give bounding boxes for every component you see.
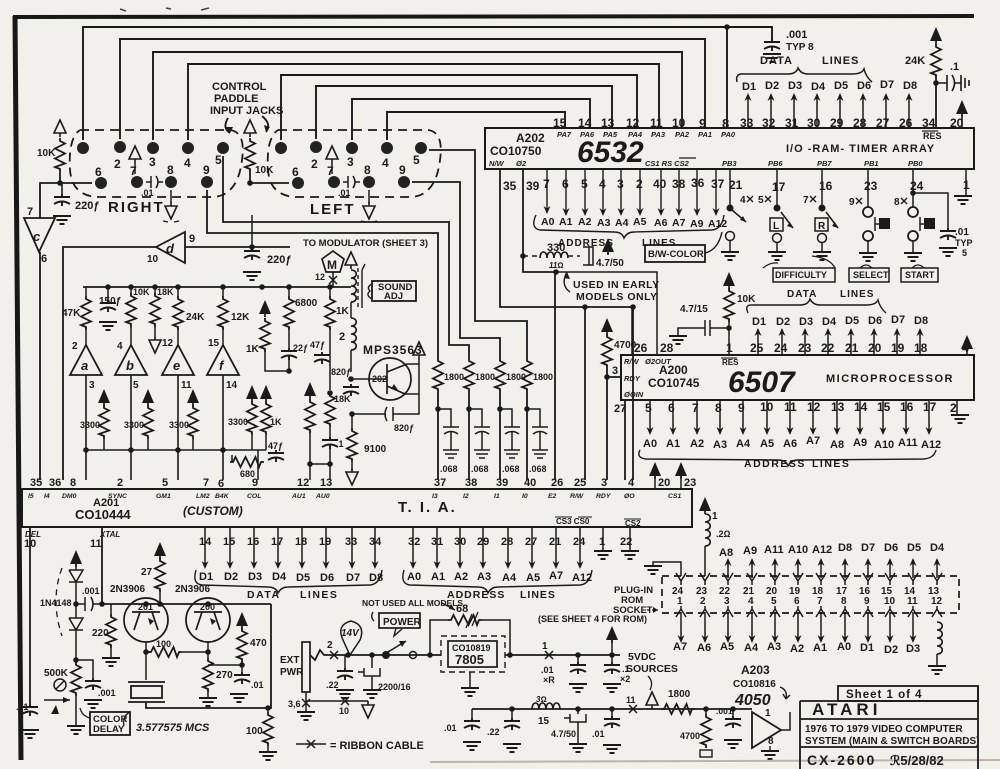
svg-text:1: 1 (599, 536, 605, 548)
svg-text:A3: A3 (477, 571, 491, 583)
svg-text:(CUSTOM): (CUSTOM) (183, 504, 243, 518)
svg-text:1: 1 (677, 596, 683, 607)
svg-text:D7: D7 (861, 542, 875, 554)
svg-text:8: 8 (715, 401, 722, 415)
DIFFICULTY box (773, 268, 835, 282)
data line arrows D1-D8 into 6532 (748, 95, 909, 128)
POWER box (379, 613, 420, 628)
svg-text:17: 17 (923, 400, 937, 414)
svg-text:A6: A6 (654, 217, 668, 229)
svg-text:A11: A11 (764, 544, 784, 556)
junction dot at 220uf node (249, 244, 255, 250)
ADDRESS LINES brace at 6507 (639, 450, 936, 466)
resistor 100 output (265, 705, 271, 711)
wire amp e output down to TIA (177, 375, 179, 480)
svg-text:D2: D2 (884, 644, 898, 656)
svg-text:L: L (773, 221, 779, 232)
svg-text:4: 4 (748, 596, 754, 607)
svg-text:12: 12 (315, 272, 325, 282)
svg-text:DATA: DATA (760, 55, 793, 67)
svg-text:R/W: R/W (570, 493, 584, 500)
svg-text:D7: D7 (346, 572, 360, 584)
capacitor .068 no2 (469, 409, 490, 458)
svg-text:3300: 3300 (80, 420, 100, 430)
wire RIGHT pin5 down and right to x449 column (223, 156, 469, 358)
svg-text:D3: D3 (788, 80, 802, 92)
svg-text:.01: .01 (338, 188, 351, 198)
svg-text:ℛ5/28/82: ℛ5/28/82 (890, 753, 944, 768)
junction dot PB0 wire (910, 190, 916, 196)
RIBBON CABLE legend (296, 743, 326, 745)
svg-text:.068: .068 (529, 464, 547, 474)
svg-text:TO MODULATOR (SHEET 3): TO MODULATOR (SHEET 3) (303, 238, 428, 249)
svg-text:TYP: TYP (955, 238, 973, 248)
resistor 68 bypass (427, 652, 433, 658)
svg-text:7: 7 (203, 477, 209, 489)
wire 24K to RES pin34 (935, 78, 937, 128)
svg-text:820ƒ: 820ƒ (394, 423, 414, 433)
svg-text:I/O -RAM- TIMER ARRAY: I/O -RAM- TIMER ARRAY (786, 143, 935, 155)
black arrow 6507 pin4 (961, 335, 973, 352)
wire PA2 net: RIGHT jack pin3 to 6532 pin10 (153, 52, 682, 140)
svg-text:21: 21 (729, 178, 743, 192)
address arrows from 6532 pins 7..37 to A0-A12 (547, 169, 716, 212)
svg-text:220ƒ: 220ƒ (75, 200, 99, 212)
junction 4700 (703, 706, 709, 712)
svg-text:18: 18 (914, 341, 928, 355)
ADDRESS LINES brace under TIA (403, 570, 592, 593)
svg-text:.1: .1 (336, 439, 344, 449)
svg-text:×R: ×R (543, 675, 555, 685)
capacitor .001 TYP 8 on PA0 (764, 39, 780, 51)
curved callout arrow early models (564, 272, 570, 292)
svg-text:.2Ω: .2Ω (716, 529, 731, 539)
svg-text:LM2: LM2 (196, 493, 210, 500)
TIA data arrows down D1-D8 (205, 527, 375, 566)
6507 data arrows D1-D8 (758, 330, 920, 355)
resistor 1K sound (329, 287, 331, 390)
svg-text:A2: A2 (578, 216, 592, 228)
open arrow above 10K (54, 120, 66, 137)
svg-text:SELECT: SELECT (853, 270, 889, 280)
svg-text:18K: 18K (157, 287, 174, 297)
buffer 4050 triangle (752, 712, 781, 748)
svg-text:D1: D1 (860, 642, 874, 654)
RIGHT jack pin 3 (147, 142, 159, 154)
svg-text:9: 9 (252, 477, 258, 489)
svg-text:ADDRESS: ADDRESS (744, 458, 806, 470)
wire Q200 emitter down (207, 642, 209, 658)
svg-text:470: 470 (250, 638, 267, 649)
resistor 18K (154, 287, 156, 336)
wire 6532 pin39 phi2 down (523, 169, 555, 480)
RIGHT jack pin 7 (131, 176, 143, 188)
wire 47K to amp a (85, 330, 87, 345)
svg-text:13: 13 (320, 477, 332, 489)
svg-text:18K: 18K (334, 394, 351, 404)
svg-text:16: 16 (819, 179, 833, 193)
resistor 3300 no4 with arrow (246, 385, 258, 402)
svg-text:PWR: PWR (280, 667, 304, 678)
svg-text:29: 29 (830, 116, 844, 130)
svg-text:CO10816: CO10816 (733, 679, 776, 690)
svg-text:2: 2 (114, 157, 121, 171)
svg-text:6: 6 (794, 596, 800, 607)
TIA pin1 ground (602, 527, 604, 551)
svg-text:10K: 10K (737, 294, 756, 305)
svg-text:9: 9 (189, 233, 195, 245)
svg-text:6: 6 (95, 165, 102, 179)
regulator 7805 (441, 636, 505, 672)
svg-text:11: 11 (90, 538, 102, 550)
svg-text:8: 8 (722, 116, 729, 131)
ROM upper bus labels (719, 542, 945, 559)
svg-text:4050: 4050 (734, 692, 771, 709)
svg-text:ØOIN: ØOIN (624, 390, 644, 399)
resistor 220 (110, 604, 112, 614)
svg-text:1K: 1K (270, 417, 282, 427)
junction dots below 1800s (435, 406, 441, 412)
capacitor .01 no2 on rail (609, 706, 615, 712)
svg-text:START: START (905, 270, 935, 280)
wire LEFT pin9 to x460 column (412, 182, 500, 358)
svg-text:27: 27 (876, 116, 890, 130)
transistor Q-MPS3563 (369, 358, 411, 400)
resistor 47K (85, 287, 87, 296)
svg-text:20: 20 (868, 341, 882, 355)
svg-text:PB1: PB1 (864, 159, 879, 168)
ROM bottom pin fork symbols (676, 606, 942, 617)
svg-text:2: 2 (327, 640, 333, 651)
capacitor .001 buffer (730, 706, 736, 712)
ROM bottom pin numbers (677, 596, 943, 607)
svg-text:5: 5 (413, 153, 420, 167)
svg-text:A203: A203 (741, 663, 770, 677)
svg-text:27: 27 (614, 403, 626, 415)
svg-text:10: 10 (339, 706, 349, 716)
svg-text:11: 11 (650, 116, 663, 130)
power switch (382, 651, 390, 659)
svg-text:PA0: PA0 (721, 130, 736, 139)
capacitor .01 at 470 (234, 672, 250, 684)
svg-text:14: 14 (226, 380, 238, 391)
svg-text:A2: A2 (690, 438, 704, 450)
wires 1800s down to TIA pins 37-40 (438, 392, 527, 480)
svg-text:CX-2600: CX-2600 (807, 752, 876, 768)
svg-text:2: 2 (72, 341, 78, 352)
capacitor .22 on rail (509, 706, 515, 712)
svg-text:11Ω: 11Ω (549, 261, 563, 270)
svg-text:11: 11 (626, 695, 636, 705)
wire PB0 to .01 typ5 cap (913, 193, 948, 228)
labels D1-D8 (742, 79, 917, 93)
svg-text:330: 330 (547, 242, 565, 254)
labels A0-A12 under 6532 (541, 216, 727, 230)
svg-text:6: 6 (668, 401, 675, 415)
6507 address arrows A0-A12 (650, 400, 929, 432)
resistor 10K center (paddle pot) (245, 138, 255, 172)
svg-text:47ƒ: 47ƒ (268, 441, 283, 451)
ground below 220 (110, 648, 112, 658)
sound adj dashed wiper (357, 268, 359, 310)
svg-text:2: 2 (311, 157, 318, 171)
sound coil upper (351, 270, 356, 302)
junction dots at transistor bases (143, 601, 149, 607)
svg-text:4: 4 (382, 156, 389, 170)
svg-text:3300: 3300 (169, 420, 189, 430)
op-amp f (207, 345, 239, 375)
svg-text:.1: .1 (950, 61, 959, 73)
op-amp e (162, 345, 194, 375)
capacitor .001 at pot (76, 660, 93, 678)
svg-text:220: 220 (92, 628, 109, 639)
ROM top pin numbers (672, 586, 940, 597)
LEFT jack pin numbers (292, 153, 420, 179)
capacitor 4.7/50 early models (583, 247, 593, 265)
resistor 1800 power (661, 704, 695, 714)
IC U-A200 6507 box (621, 355, 974, 400)
svg-text:D8: D8 (903, 80, 917, 92)
svg-text:D3: D3 (248, 571, 262, 583)
svg-text:A5: A5 (720, 641, 734, 653)
svg-text:.001: .001 (786, 29, 807, 41)
resistor 24K (931, 44, 941, 78)
svg-text:23: 23 (864, 179, 878, 193)
svg-text:5: 5 (771, 596, 777, 607)
svg-text:15: 15 (538, 716, 550, 727)
5V distribution rail lower (472, 708, 752, 710)
open arrow sound column (345, 252, 357, 269)
svg-text:A1: A1 (559, 216, 573, 228)
RIGHT jack pin 1 (77, 142, 89, 154)
svg-text:A9: A9 (853, 437, 867, 449)
svg-text:4: 4 (628, 477, 635, 489)
open arrow at collector (413, 342, 425, 359)
svg-text:d: d (166, 241, 175, 256)
svg-text:7: 7 (692, 401, 699, 415)
svg-text:LINES: LINES (520, 589, 556, 601)
RIGHT jack pin 8 (165, 176, 177, 188)
svg-text:A2: A2 (790, 643, 804, 655)
label CONTROL PADDLE INPUT JACKS (210, 81, 283, 117)
svg-text:RDY: RDY (624, 374, 641, 383)
svg-text:GM1: GM1 (156, 493, 171, 500)
svg-text:3300: 3300 (228, 417, 248, 427)
svg-text:D5: D5 (845, 315, 859, 327)
svg-text:27: 27 (141, 567, 153, 578)
LEFT jack pin 8 (363, 176, 375, 188)
svg-text:24K: 24K (905, 55, 925, 67)
RIGHT jack pin 2 (114, 141, 126, 153)
black arrow 5V (606, 626, 618, 643)
svg-text:35: 35 (30, 477, 42, 489)
svg-text:DELAY: DELAY (93, 724, 125, 735)
switch PB0 start (912, 169, 914, 207)
svg-text:9: 9 (699, 116, 706, 131)
LEFT jack pin 2 (310, 141, 322, 153)
LEFT jack pin 6 (292, 177, 304, 189)
svg-text:100: 100 (246, 726, 263, 737)
svg-text:1: 1 (765, 708, 771, 719)
6532 PA pin name labels (557, 130, 736, 139)
wire center 10K down to LEFT pin6 rail (250, 172, 289, 183)
svg-text:2N3906: 2N3906 (110, 584, 145, 595)
svg-text:A8: A8 (719, 547, 733, 559)
svg-text:3.577575 MCS: 3.577575 MCS (136, 722, 210, 734)
dashed arc around diodes (56, 568, 62, 636)
svg-text:9: 9 (399, 163, 406, 177)
svg-text:CS2: CS2 (625, 519, 641, 528)
resistor 270 (203, 658, 213, 692)
svg-text:ATARI: ATARI (812, 700, 881, 719)
svg-text:5: 5 (645, 401, 652, 415)
svg-text:1K: 1K (246, 344, 260, 355)
svg-text:.22: .22 (326, 680, 339, 690)
svg-text:28: 28 (660, 341, 674, 355)
capacitor .22 input (344, 655, 346, 668)
svg-text:2: 2 (700, 596, 706, 607)
svg-text:I4: I4 (44, 493, 50, 500)
svg-text:A7: A7 (672, 217, 686, 229)
svg-text:A4: A4 (736, 438, 751, 450)
svg-text:15: 15 (208, 338, 220, 349)
ADDRESS LINES brace (6532) (534, 215, 724, 238)
svg-text:.001: .001 (82, 586, 100, 596)
LEFT jack pin 3 (346, 142, 358, 154)
svg-text:×2: ×2 (620, 674, 630, 684)
svg-text:D6: D6 (884, 542, 898, 554)
svg-text:3: 3 (724, 596, 730, 607)
junction dot 18K top (327, 390, 333, 396)
resistor 12K (222, 287, 224, 345)
svg-text:8: 8 (167, 163, 174, 177)
svg-text:33: 33 (740, 116, 754, 130)
resistor 24K (177, 287, 179, 345)
SELECT box (849, 268, 889, 282)
modulator M pentagon (322, 251, 344, 272)
wire 18K bottom to TIA pin13 (329, 449, 331, 480)
capacitor .01 between left pins 7-8 (343, 176, 360, 188)
curved arrow from label to right jack (225, 116, 268, 133)
svg-text:A7: A7 (549, 570, 563, 582)
START box (901, 268, 938, 282)
capacitor .1 x2 (609, 652, 615, 658)
svg-text:7: 7 (327, 164, 334, 178)
svg-text:1800: 1800 (533, 372, 553, 382)
6532 top pin numbers (553, 116, 964, 131)
svg-text:.01: .01 (955, 227, 969, 238)
capacitor .01 TYP 5 (940, 228, 956, 240)
capacitor .01 xR (575, 652, 581, 658)
wire TIA pin10 down to .01 cap (29, 527, 31, 704)
svg-text:7: 7 (130, 164, 137, 178)
svg-text:17: 17 (772, 180, 786, 194)
svg-text:D1: D1 (199, 571, 213, 583)
svg-text:10: 10 (672, 116, 686, 130)
svg-text:47K: 47K (62, 308, 81, 319)
ground below 7805 (469, 672, 471, 688)
power input wire (310, 650, 430, 660)
svg-text:14: 14 (578, 116, 592, 130)
svg-text:6507: 6507 (728, 366, 796, 399)
junction dot below 24K (933, 80, 939, 86)
svg-text:2N3906: 2N3906 (175, 584, 210, 595)
svg-text:A5: A5 (526, 572, 540, 584)
svg-text:20: 20 (658, 477, 670, 489)
resistor 100 coupling (146, 651, 150, 653)
wire 6532 pin35 N/W down (500, 169, 633, 480)
svg-text:31: 31 (785, 116, 799, 130)
junction dot NW-x585 (582, 304, 588, 310)
svg-text:9: 9 (203, 163, 210, 177)
wire through 7805 (430, 654, 620, 656)
svg-text:.01: .01 (16, 702, 29, 712)
RIGHT jack pin 9 (201, 176, 213, 188)
LEFT jack pin 5 (415, 142, 427, 154)
svg-text:8: 8 (841, 596, 847, 607)
capacitor .068 no4 (527, 409, 548, 458)
svg-text:4.7/15: 4.7/15 (680, 304, 708, 315)
svg-text:A0: A0 (643, 438, 657, 450)
svg-text:.22: .22 (487, 727, 500, 737)
labels D1-D8 at 6507 (752, 314, 928, 328)
svg-text:8: 8 (768, 736, 774, 747)
LEFT jack pin 1 (275, 142, 287, 154)
svg-text:A12: A12 (812, 544, 832, 556)
ground below .001 cap (763, 54, 781, 62)
svg-text:3,6: 3,6 (288, 699, 301, 709)
svg-text:PB7: PB7 (817, 159, 832, 168)
svg-text:2: 2 (117, 477, 123, 489)
svg-text:b: b (126, 358, 134, 373)
crystal 3.579545 (128, 682, 165, 702)
ground for 4.7/15 (669, 336, 687, 344)
black arrow top of diode chain (70, 550, 82, 567)
RIGHT jack pin 4 (182, 142, 194, 154)
svg-text:1: 1 (712, 511, 718, 522)
svg-text:a: a (81, 358, 88, 373)
svg-text:A9: A9 (743, 545, 757, 557)
ROM upper bus arrows (728, 560, 937, 578)
wire x585 down to TIA pin25 (584, 307, 586, 480)
capacitor .01 between right pins 7-8 (146, 176, 163, 188)
capacitor 2200/16 (369, 652, 375, 658)
svg-text:.001: .001 (716, 706, 733, 716)
svg-text:A6: A6 (783, 438, 797, 450)
svg-text:D6: D6 (868, 315, 882, 327)
op-amp a (70, 345, 102, 375)
svg-text:5: 5 (758, 195, 764, 206)
svg-text:32: 32 (762, 116, 776, 130)
svg-text:10K: 10K (133, 287, 150, 297)
svg-text:I2: I2 (463, 493, 469, 500)
resistor 680 horizontal (231, 455, 233, 462)
wire PA3 net: RIGHT jack pin4 to 6532 pin11 (188, 64, 659, 140)
LEFT jack dashed outline (268, 130, 441, 197)
junction dot PA0 at pin8 drop (724, 24, 730, 30)
labels A0-A12 under TIA (407, 570, 592, 584)
svg-text:D2: D2 (224, 571, 238, 583)
svg-text:A7: A7 (673, 641, 687, 653)
TIA internal top pin names (28, 493, 681, 500)
op-amp d (147, 232, 195, 265)
svg-text:8: 8 (364, 163, 371, 177)
junction dot 10K bottom (57, 180, 63, 186)
svg-text:28: 28 (853, 116, 867, 130)
svg-text:LINES: LINES (812, 458, 850, 470)
svg-text:D1: D1 (752, 316, 766, 328)
open arrow above LEFT pin7 (326, 146, 338, 163)
